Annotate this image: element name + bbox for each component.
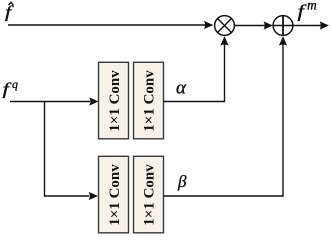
svg-text:f: f	[3, 80, 12, 99]
conv box U4 (1x1 Conv)	[134, 156, 164, 233]
wire X1 to adder	[234, 21, 273, 29]
node f_q label	[3, 77, 19, 99]
wire f_hat input	[8, 21, 213, 29]
svg-text:f: f	[298, 2, 308, 21]
wire alpha (U2 to multiplier)	[164, 36, 229, 101]
conv box U1 (1x1 Conv)	[99, 62, 129, 139]
multiplier X1	[215, 16, 235, 36]
svg-text:f: f	[5, 3, 14, 22]
wire f_q input	[10, 97, 99, 105]
wire output f_m	[293, 21, 329, 29]
conv box U2 (1x1 Conv)	[134, 62, 164, 139]
svg-text:1×1 Conv: 1×1 Conv	[142, 70, 158, 132]
svg-text:q: q	[12, 77, 18, 91]
wire beta (U4 to adder)	[164, 36, 288, 196]
svg-text:1×1 Conv: 1×1 Conv	[142, 164, 158, 226]
node f_hat label	[5, 2, 14, 22]
svg-text:α: α	[176, 78, 187, 99]
svg-text:1×1 Conv: 1×1 Conv	[107, 164, 123, 226]
node f_m label	[298, 0, 318, 21]
svg-text:m: m	[307, 0, 317, 13]
adder P1	[273, 16, 293, 36]
svg-text:1×1 Conv: 1×1 Conv	[107, 70, 123, 132]
svg-text:β: β	[177, 172, 187, 191]
junction branch wire (down and right to bottom convs)	[45, 102, 99, 201]
conv box U3 (1x1 Conv)	[99, 156, 129, 233]
